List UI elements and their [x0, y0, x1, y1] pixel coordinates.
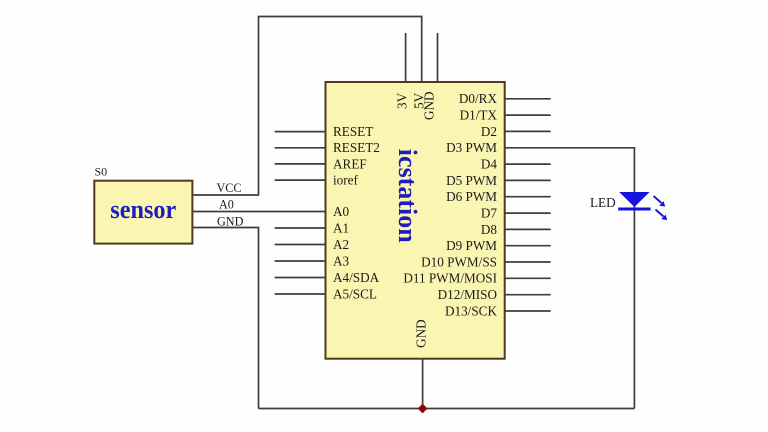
svg-text:A2: A2	[333, 237, 349, 252]
svg-text:A4/SDA: A4/SDA	[333, 270, 380, 285]
svg-text:LED: LED	[590, 195, 616, 210]
svg-text:D10 PWM/SS: D10 PWM/SS	[421, 254, 497, 269]
svg-text:A0: A0	[219, 198, 234, 212]
svg-text:D1/TX: D1/TX	[460, 108, 498, 123]
svg-text:A5/SCL: A5/SCL	[333, 286, 377, 301]
svg-text:D7: D7	[481, 206, 498, 221]
svg-text:RESET2: RESET2	[333, 140, 380, 155]
svg-text:D5 PWM: D5 PWM	[446, 173, 497, 188]
svg-text:GND: GND	[422, 91, 437, 120]
svg-text:D13/SCK: D13/SCK	[445, 303, 498, 318]
svg-text:A3: A3	[333, 253, 350, 268]
svg-text:D9 PWM: D9 PWM	[446, 238, 497, 253]
svg-text:D6 PWM: D6 PWM	[446, 189, 497, 204]
svg-text:GND: GND	[414, 319, 429, 348]
svg-text:D4: D4	[481, 157, 498, 172]
svg-text:sensor: sensor	[110, 195, 176, 224]
svg-text:D8: D8	[481, 222, 498, 237]
svg-text:A0: A0	[333, 204, 350, 219]
svg-text:D2: D2	[481, 124, 497, 139]
svg-text:VCC: VCC	[216, 181, 241, 195]
svg-text:D0/RX: D0/RX	[459, 91, 498, 106]
svg-text:D11 PWM/MOSI: D11 PWM/MOSI	[403, 271, 497, 286]
svg-text:icstation: icstation	[393, 149, 422, 243]
svg-text:D12/MISO: D12/MISO	[438, 287, 497, 302]
svg-text:S0: S0	[95, 165, 108, 179]
svg-text:GND: GND	[217, 215, 244, 229]
svg-text:RESET: RESET	[333, 124, 373, 139]
svg-text:A1: A1	[333, 220, 349, 235]
svg-text:ioref: ioref	[333, 173, 359, 188]
svg-text:AREF: AREF	[333, 156, 367, 171]
svg-text:D3 PWM: D3 PWM	[446, 140, 497, 155]
svg-text:3V: 3V	[394, 92, 409, 109]
